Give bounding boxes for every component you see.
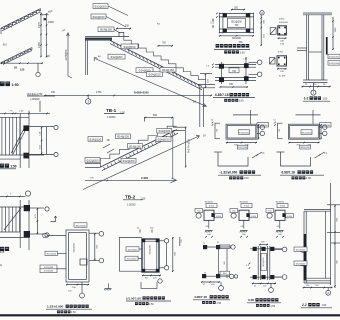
plan1 bottom wall lines: [0, 154, 44, 156]
footing symbol F2: ground hatch: [240, 230, 247, 232]
svg-text:2Φ: 2Φ: [241, 225, 244, 228]
sec2 axis bubble: [326, 290, 331, 295]
svg-text:500: 500: [153, 114, 158, 117]
svg-text:Φ12@200: Φ12@200: [239, 132, 250, 135]
plan2 column squares: [24, 205, 30, 211]
footing symbol F3: ground hatch: [276, 230, 283, 232]
upper flight slab soffit line: [2, 12, 41, 31]
axis bubble 2: [260, 11, 264, 15]
footing symbol F3: left circle: [267, 213, 272, 218]
landing plan L1: bottom dim: [226, 142, 257, 144]
svg-text:TL-1: TL-1: [7, 25, 13, 29]
landing plan L1: top leader horizontal: [233, 114, 258, 116]
svg-text:1:50: 1:50: [11, 83, 18, 87]
TB-2 right vertical dim: [185, 127, 187, 168]
svg-text:Φ14@150: Φ14@150: [162, 68, 174, 72]
C top row squares: [203, 245, 207, 249]
plan2 top wall line: [0, 206, 29, 208]
lower flight band hatch ticks: [4, 61, 5, 63]
svg-text:4.08/7.18: 4.08/7.18: [194, 295, 207, 299]
svg-text:Φ12@200: Φ12@200: [75, 224, 86, 227]
TB-1 band rebar label boxes: [121, 44, 138, 49]
svg-text:1: 1: [87, 100, 89, 104]
plan1 break diagonal: [11, 128, 24, 153]
svg-text:5X: 5X: [193, 102, 196, 104]
P1 subtitle: [224, 50, 227, 53]
svg-text:Φ150: Φ150: [287, 215, 293, 218]
B corner blocks: [142, 239, 145, 242]
C top bar rect: [219, 245, 230, 248]
svg-text:1:50: 1:50: [149, 303, 154, 306]
D horizontal lines: [250, 248, 282, 250]
TB-1 steps zigzag: [124, 36, 206, 79]
footing symbol F3: right label: [286, 214, 294, 218]
top landing nosing line: [40, 14, 49, 16]
landing plan L2: bent bar right: [315, 152, 325, 158]
upper flight left end: [0, 28, 2, 34]
C bottom axis: [219, 286, 224, 291]
plan2 dim vertical: [36, 208, 38, 234]
svg-text:Φ12@200: Φ12@200: [238, 146, 248, 149]
lower landing support verticals: [199, 88, 201, 127]
A bottom dims: [66, 284, 89, 286]
P1 outer vertical lines: [218, 13, 220, 34]
landing plan L2: top-right label box: [320, 123, 332, 127]
TB-2 bottom landing slab: [85, 162, 100, 164]
plan1 tread hatch lines: [1, 117, 3, 155]
P2 column squares: [219, 64, 224, 69]
footing symbol F2: stem below: [243, 220, 245, 228]
footing symbol F1: ground hatch: [205, 230, 212, 232]
svg-text:2Φ: 2Φ: [277, 225, 280, 228]
B U-shaped outline left: [120, 237, 143, 271]
svg-text:150: 150: [20, 68, 25, 72]
sec2 bottom dim: [303, 287, 333, 289]
B bottom dim: [142, 274, 161, 276]
landing plan L2: top leader horizontal: [296, 114, 321, 116]
B left label boxes: [126, 247, 139, 251]
lower flight slab line: [1, 48, 32, 63]
upper flight band hatch ticks: [3, 28, 4, 30]
P1 inner beam rect with label: [228, 18, 246, 28]
svg-text:Φ14@150: Φ14@150: [158, 138, 170, 142]
plan2 partial title (cut): [0, 247, 4, 251]
plan1 top dim line: [0, 112, 50, 114]
svg-text:(-1250)W: (-1250)W: [30, 99, 40, 101]
dim arrow right end: [171, 178, 177, 183]
B bottom bracket: [141, 282, 157, 288]
sec1 bottom slab lines: [303, 79, 328, 81]
B bottom axis: [158, 279, 162, 283]
TB-2 top landing slab: [173, 126, 185, 128]
svg-text:1): 1): [0, 264, 2, 267]
A outer rect double border: [66, 230, 89, 282]
footing symbol F1: left label: [195, 209, 203, 213]
landing plan L2: top leader vertical: [312, 110, 314, 124]
P1 column squares: [223, 13, 227, 17]
TB-1 slope leader line with arrows: [95, 59, 206, 107]
svg-text:1:50: 1:50: [321, 304, 326, 307]
svg-text:Φ12@200: Φ12@200: [262, 258, 265, 267]
A inner small square: [80, 259, 87, 265]
D bottom axis: [269, 288, 274, 293]
svg-text:Φ12@200: Φ12@200: [301, 132, 312, 135]
D bottom dims: [252, 282, 276, 284]
plan1 axis leader lines: [29, 126, 54, 128]
leader from box3: [114, 29, 120, 33]
leader arrowhead up: [67, 33, 70, 36]
S2 column square: [277, 56, 287, 66]
C bottom horizontal: [206, 275, 230, 277]
svg-text:-1.33'±0.000: -1.33'±0.000: [46, 305, 64, 309]
svg-text:Φ14@150: Φ14@150: [100, 28, 112, 32]
svg-text:1:50: 1:50: [216, 302, 221, 305]
svg-text:1:50: 1:50: [10, 165, 17, 169]
leader from box2: [106, 17, 126, 28]
extension line to landing: [172, 117, 174, 127]
landing plan L2: right dim vertical: [320, 124, 322, 139]
landing edge parapet: [119, 32, 124, 36]
stair section PTB-1 top-left: upper flight steps: [1, 9, 41, 29]
S1 column square: [278, 26, 287, 35]
landing plan L2: inner label: [301, 130, 312, 135]
svg-text:1:5: 1:5: [0, 250, 5, 254]
note underline: [27, 95, 55, 97]
sec1 axis bubble: [311, 90, 316, 95]
L1 subtitle: [229, 176, 232, 179]
footing symbol F1: left circle: [196, 213, 201, 218]
svg-text:2Φ: 2Φ: [206, 225, 209, 228]
svg-text:Φ12@200: Φ12@200: [128, 248, 138, 251]
plan1 inner dim vertical: [41, 127, 43, 155]
TL vertical dimension chain line b: [46, 14, 48, 58]
leader from box1: [108, 6, 128, 16]
D axis circles right: [282, 247, 287, 252]
svg-text:150: 150: [51, 91, 56, 94]
svg-text:Φ14@150: Φ14@150: [89, 137, 101, 141]
svg-text:1475: 1475: [37, 22, 41, 28]
A left label box: [45, 251, 58, 255]
TB-1 rebar label box 1: [93, 4, 108, 9]
D subtitle: [256, 304, 259, 307]
B right dim verticals: [172, 237, 174, 272]
svg-text:1-1: 1-1: [304, 97, 309, 101]
footing symbol F1: stem below: [208, 220, 210, 228]
D inner rotated labels: [261, 253, 266, 270]
svg-text:Φ12@200: Φ12@200: [329, 56, 340, 59]
svg-text:9×175=1575: 9×175=1575: [188, 138, 191, 153]
plan1 wall verticals: [19, 113, 21, 168]
plan1 top wall line: [0, 116, 29, 118]
plan1 axis bubble C: [54, 125, 58, 129]
svg-text:Φ12@200: Φ12@200: [296, 263, 306, 266]
P2 bottom dim: [220, 86, 249, 88]
note leader stem: [39, 101, 41, 112]
title block: plan sheet label (cut at left edge): [0, 82, 5, 87]
landing plan L1: bent bar right: [252, 152, 262, 158]
sheet bottom border line: [0, 314, 340, 316]
sec1 right dim line: [332, 17, 334, 50]
P1 left outside ticks: [216, 13, 218, 15]
footing symbol F2: left circle: [231, 213, 236, 218]
S2 left mark: [270, 58, 276, 65]
C top axis: [231, 245, 235, 249]
TB-1 flight slab band soffit: [110, 44, 202, 90]
svg-text:Φ150: Φ150: [251, 215, 257, 218]
svg-text:Φ12@200: Φ12@200: [329, 62, 340, 65]
svg-text:2: 2: [327, 291, 329, 295]
svg-text:Φ12@200: Φ12@200: [46, 253, 56, 256]
svg-text:1:50/50: 1:50/50: [127, 203, 136, 206]
landing plan L2: left bracket: [278, 123, 283, 138]
sec2 left wall verticals: [303, 211, 305, 283]
svg-text:6.98/7.18: 6.98/7.18: [282, 171, 296, 175]
footing symbol F1: right label: [215, 214, 223, 218]
svg-text:Φ12@200: Φ12@200: [44, 270, 54, 273]
footing symbol F3: stem below: [279, 220, 281, 228]
svg-text:Φ12@200: Φ12@200: [158, 129, 170, 133]
plan2 direction arrow: [51, 217, 56, 222]
plan2 wall verticals: [19, 200, 21, 248]
landing plan L2: right axis circles: [323, 125, 327, 129]
B main rect thick border: [142, 239, 159, 272]
small ground symbol left of B: [108, 283, 110, 288]
svg-text:1:50: 1:50: [306, 177, 311, 180]
P2 inner label box: [229, 68, 239, 73]
footing symbol F2: black insert: [246, 213, 249, 217]
short leader b: [107, 149, 114, 153]
footing symbol F2: footing square: [239, 210, 249, 220]
svg-text:Φ14@150: Φ14@150: [124, 45, 136, 49]
D wall verticals: [257, 246, 259, 280]
TB-2 flight slab band soffit: [102, 133, 178, 170]
P2 horizontal wall lines row2: [215, 77, 256, 79]
footing symbol F2: left label: [230, 209, 238, 213]
plan2 axis bubbles: [45, 207, 49, 211]
leader hook: [68, 76, 72, 78]
landing plan L2: bottom dim: [289, 142, 320, 144]
svg-text:1750: 1750: [96, 91, 102, 94]
svg-text:1:50/50: 1:50/50: [107, 116, 116, 119]
svg-text:1:50: 1:50: [239, 100, 244, 103]
vertical dim line below axis2: [260, 15, 262, 46]
plan2 break diagonal: [4, 208, 21, 230]
svg-text:1475@50: 1475@50: [65, 49, 68, 60]
plan2 bottom wall lines: [0, 231, 20, 233]
support line under TB-2 top landing: [172, 130, 174, 179]
svg-text:1:50: 1:50: [240, 50, 246, 54]
footing symbol F3: left label: [266, 209, 274, 213]
landing plan L2: slab outer rect: [289, 124, 320, 139]
footing symbol F1: black insert: [211, 213, 214, 217]
A subtitle: [57, 310, 60, 313]
TB-2 flight slab band top: [101, 130, 177, 167]
sec2 right outer vertical (long): [330, 183, 332, 285]
svg-text:4Φ12: 4Φ12: [279, 18, 285, 21]
sec1 rebar black bar: [326, 37, 328, 55]
svg-text:Φ12@200: Φ12@200: [123, 159, 135, 163]
C verticals: [218, 249, 220, 278]
leader line with arrow (storey): [67, 33, 69, 76]
TB-1 rebar label box 3: [98, 27, 114, 32]
short dim line: [116, 28, 131, 30]
C top horizontal: [207, 246, 231, 248]
landing plan L1: top leader vertical: [250, 110, 252, 124]
TB-1 right vertical dim bracket: [205, 74, 207, 89]
A top label box: [74, 223, 87, 227]
sec1 right wall verticals: [321, 15, 323, 80]
svg-text:Φ12@200: Φ12@200: [87, 158, 99, 162]
sec1 right label boxes: [328, 54, 340, 58]
svg-text:Φ12@200: Φ12@200: [44, 266, 54, 269]
TB-1 bottom dimension line: [44, 94, 212, 96]
svg-text:1-1: 1-1: [210, 22, 214, 25]
svg-text:4Φ: 4Φ: [107, 139, 110, 142]
P2 top extension line: [245, 57, 247, 84]
plan1 axis bubble D: [54, 152, 58, 156]
svg-text:300x300: 300x300: [232, 38, 242, 40]
svg-text:Φ12@200: Φ12@200: [127, 258, 137, 261]
TB-2 steps zigzag (ascending right): [100, 126, 176, 163]
A bottom axis bubble: [80, 293, 85, 298]
svg-text:B-2: B-2: [3, 44, 8, 47]
svg-text:Φ150: Φ150: [216, 215, 222, 218]
landing plan L1: inner label: [239, 130, 250, 135]
P2 vertical line left: [220, 62, 222, 84]
svg-text:31.5W: 31.5W: [279, 75, 286, 77]
TB-1 top landing slab (thick): [85, 36, 129, 38]
sec2 top cap: [304, 209, 331, 211]
svg-text:1:50: 1:50: [120, 112, 125, 115]
P2 axis bubbles right: [257, 60, 262, 65]
plan2 tread hatch: [1, 207, 3, 232]
svg-text:Φ12@200: Φ12@200: [73, 242, 76, 252]
plan2 top axis bubble with leader: [25, 191, 30, 196]
svg-text:Φ14@150: Φ14@150: [129, 144, 141, 148]
landing plan L1: right axis circles: [260, 125, 264, 129]
axis bubble below TL: [36, 72, 40, 76]
S2 dim below: [277, 68, 287, 70]
TL bottom dimension line: [0, 62, 43, 64]
TB-1 rebar label box 2: [91, 14, 106, 19]
sec1 inner floor line: [309, 51, 322, 53]
lower flight steps: [1, 48, 32, 63]
C bottom row squares: [202, 274, 206, 278]
short leader a: [103, 144, 110, 148]
sec2 right dim ticks: [327, 204, 340, 206]
B right axis circles: [159, 240, 164, 242]
A right dim vertical: [94, 233, 96, 260]
D column squares: [253, 247, 257, 251]
svg-text:Φ14@150: Φ14@150: [149, 73, 161, 77]
axis bubble 1: [86, 99, 91, 104]
svg-text:Φ12@200: Φ12@200: [231, 20, 242, 23]
svg-text:1/1.00'1.00: 1/1.00'1.00: [126, 296, 141, 300]
footing symbol F3: footing square: [275, 210, 285, 220]
svg-text:TB-2: TB-2: [125, 194, 136, 199]
TB-2 dim 500 at top: [145, 117, 174, 119]
landing plan L1: left bracket: [215, 123, 220, 138]
TB-2 slope leader line with arrows: [83, 136, 199, 190]
svg-text:700: 700: [232, 70, 237, 73]
TB-1 lower landing slab: [198, 83, 215, 85]
svg-text:Φ6@200: Φ6@200: [279, 21, 289, 24]
C bottom dim: [201, 281, 220, 283]
P1 outer horizontal lines: [219, 12, 254, 14]
landing plan L1: slab inner rect: [227, 125, 256, 138]
footing symbol F1: footing square: [204, 210, 214, 220]
P1 bottom dim: [219, 35, 254, 37]
svg-text:Φ12@200: Φ12@200: [111, 55, 123, 59]
plan1 partial title (cut): [0, 164, 4, 168]
landing plan L1: label below: [237, 145, 248, 149]
sec1 top cap lines: [303, 12, 332, 14]
svg-text:Φ12@200: Φ12@200: [300, 146, 310, 149]
svg-text:Φ12@200: Φ12@200: [148, 244, 151, 254]
S1 dim below: [278, 37, 287, 39]
P1 title: [216, 44, 220, 48]
P2 subtitle: [224, 99, 227, 102]
B subtitle: [135, 302, 138, 305]
svg-text:1:50: 1:50: [270, 305, 275, 308]
landing plan L1: top-right label box: [257, 123, 269, 127]
svg-text:Φ14@150: Φ14@150: [117, 135, 129, 139]
svg-text:TB-1: TB-1: [106, 108, 117, 113]
C subtitle: [202, 301, 205, 304]
sec1 left ledge lines: [297, 47, 307, 49]
sec1 left wall verticals: [306, 15, 308, 80]
TB-1 flight slab band top line: [110, 40, 202, 86]
A right leader+circles: [89, 232, 99, 234]
svg-text:Φ12@200: Φ12@200: [296, 249, 306, 252]
sec1 bottom dim: [302, 86, 331, 88]
TB-2 bottom dim line: [85, 179, 176, 181]
landing plan L2: bent rebar hook: [281, 152, 311, 166]
svg-text:1:50: 1:50: [244, 177, 249, 180]
sec2 inner right vertical: [325, 211, 327, 278]
upper flight slab top line: [1, 9, 41, 29]
P2 horizontal wall lines row1: [215, 63, 256, 65]
svg-text:1:50: 1:50: [71, 311, 76, 314]
TB-1 band hatch ticks: [113, 42, 115, 45]
TB-2 band hatch ticks: [104, 167, 105, 170]
TB-2 rebar label boxes: [88, 137, 103, 142]
plan2 axis leaders: [30, 207, 44, 209]
axis stem: [37, 63, 39, 72]
svg-text:-1.33'±0.000: -1.33'±0.000: [220, 171, 238, 175]
sec2 bottom slab lines: [304, 277, 331, 279]
svg-text:1450: 1450: [37, 42, 41, 48]
svg-text:Φ14@150: Φ14@150: [93, 15, 105, 19]
svg-text:5X: 5X: [203, 136, 206, 138]
landing plan L2: slab inner rect: [290, 125, 319, 138]
A left note stack: [40, 265, 57, 269]
svg-text:2300: 2300: [48, 20, 54, 24]
landing plan L2: label below: [300, 145, 311, 149]
sec2 rebar black bar: [304, 234, 307, 280]
A left axis bubble: [43, 233, 48, 238]
svg-text:1: 1: [312, 91, 314, 95]
svg-text:4.38/7.18: 4.38/7.18: [215, 93, 229, 97]
sec2 left label boxes: [294, 247, 307, 251]
svg-text:7Φ: 7Φ: [324, 152, 327, 155]
svg-text:200: 200: [234, 6, 239, 9]
footing symbol F2: right label: [250, 214, 257, 218]
landing support wall verticals: [85, 41, 87, 76]
svg-text:3.08: 3.08: [248, 298, 254, 302]
svg-text:8×280=2240: 8×280=2240: [134, 91, 149, 95]
svg-text:4Φ12: 4Φ12: [278, 51, 284, 54]
